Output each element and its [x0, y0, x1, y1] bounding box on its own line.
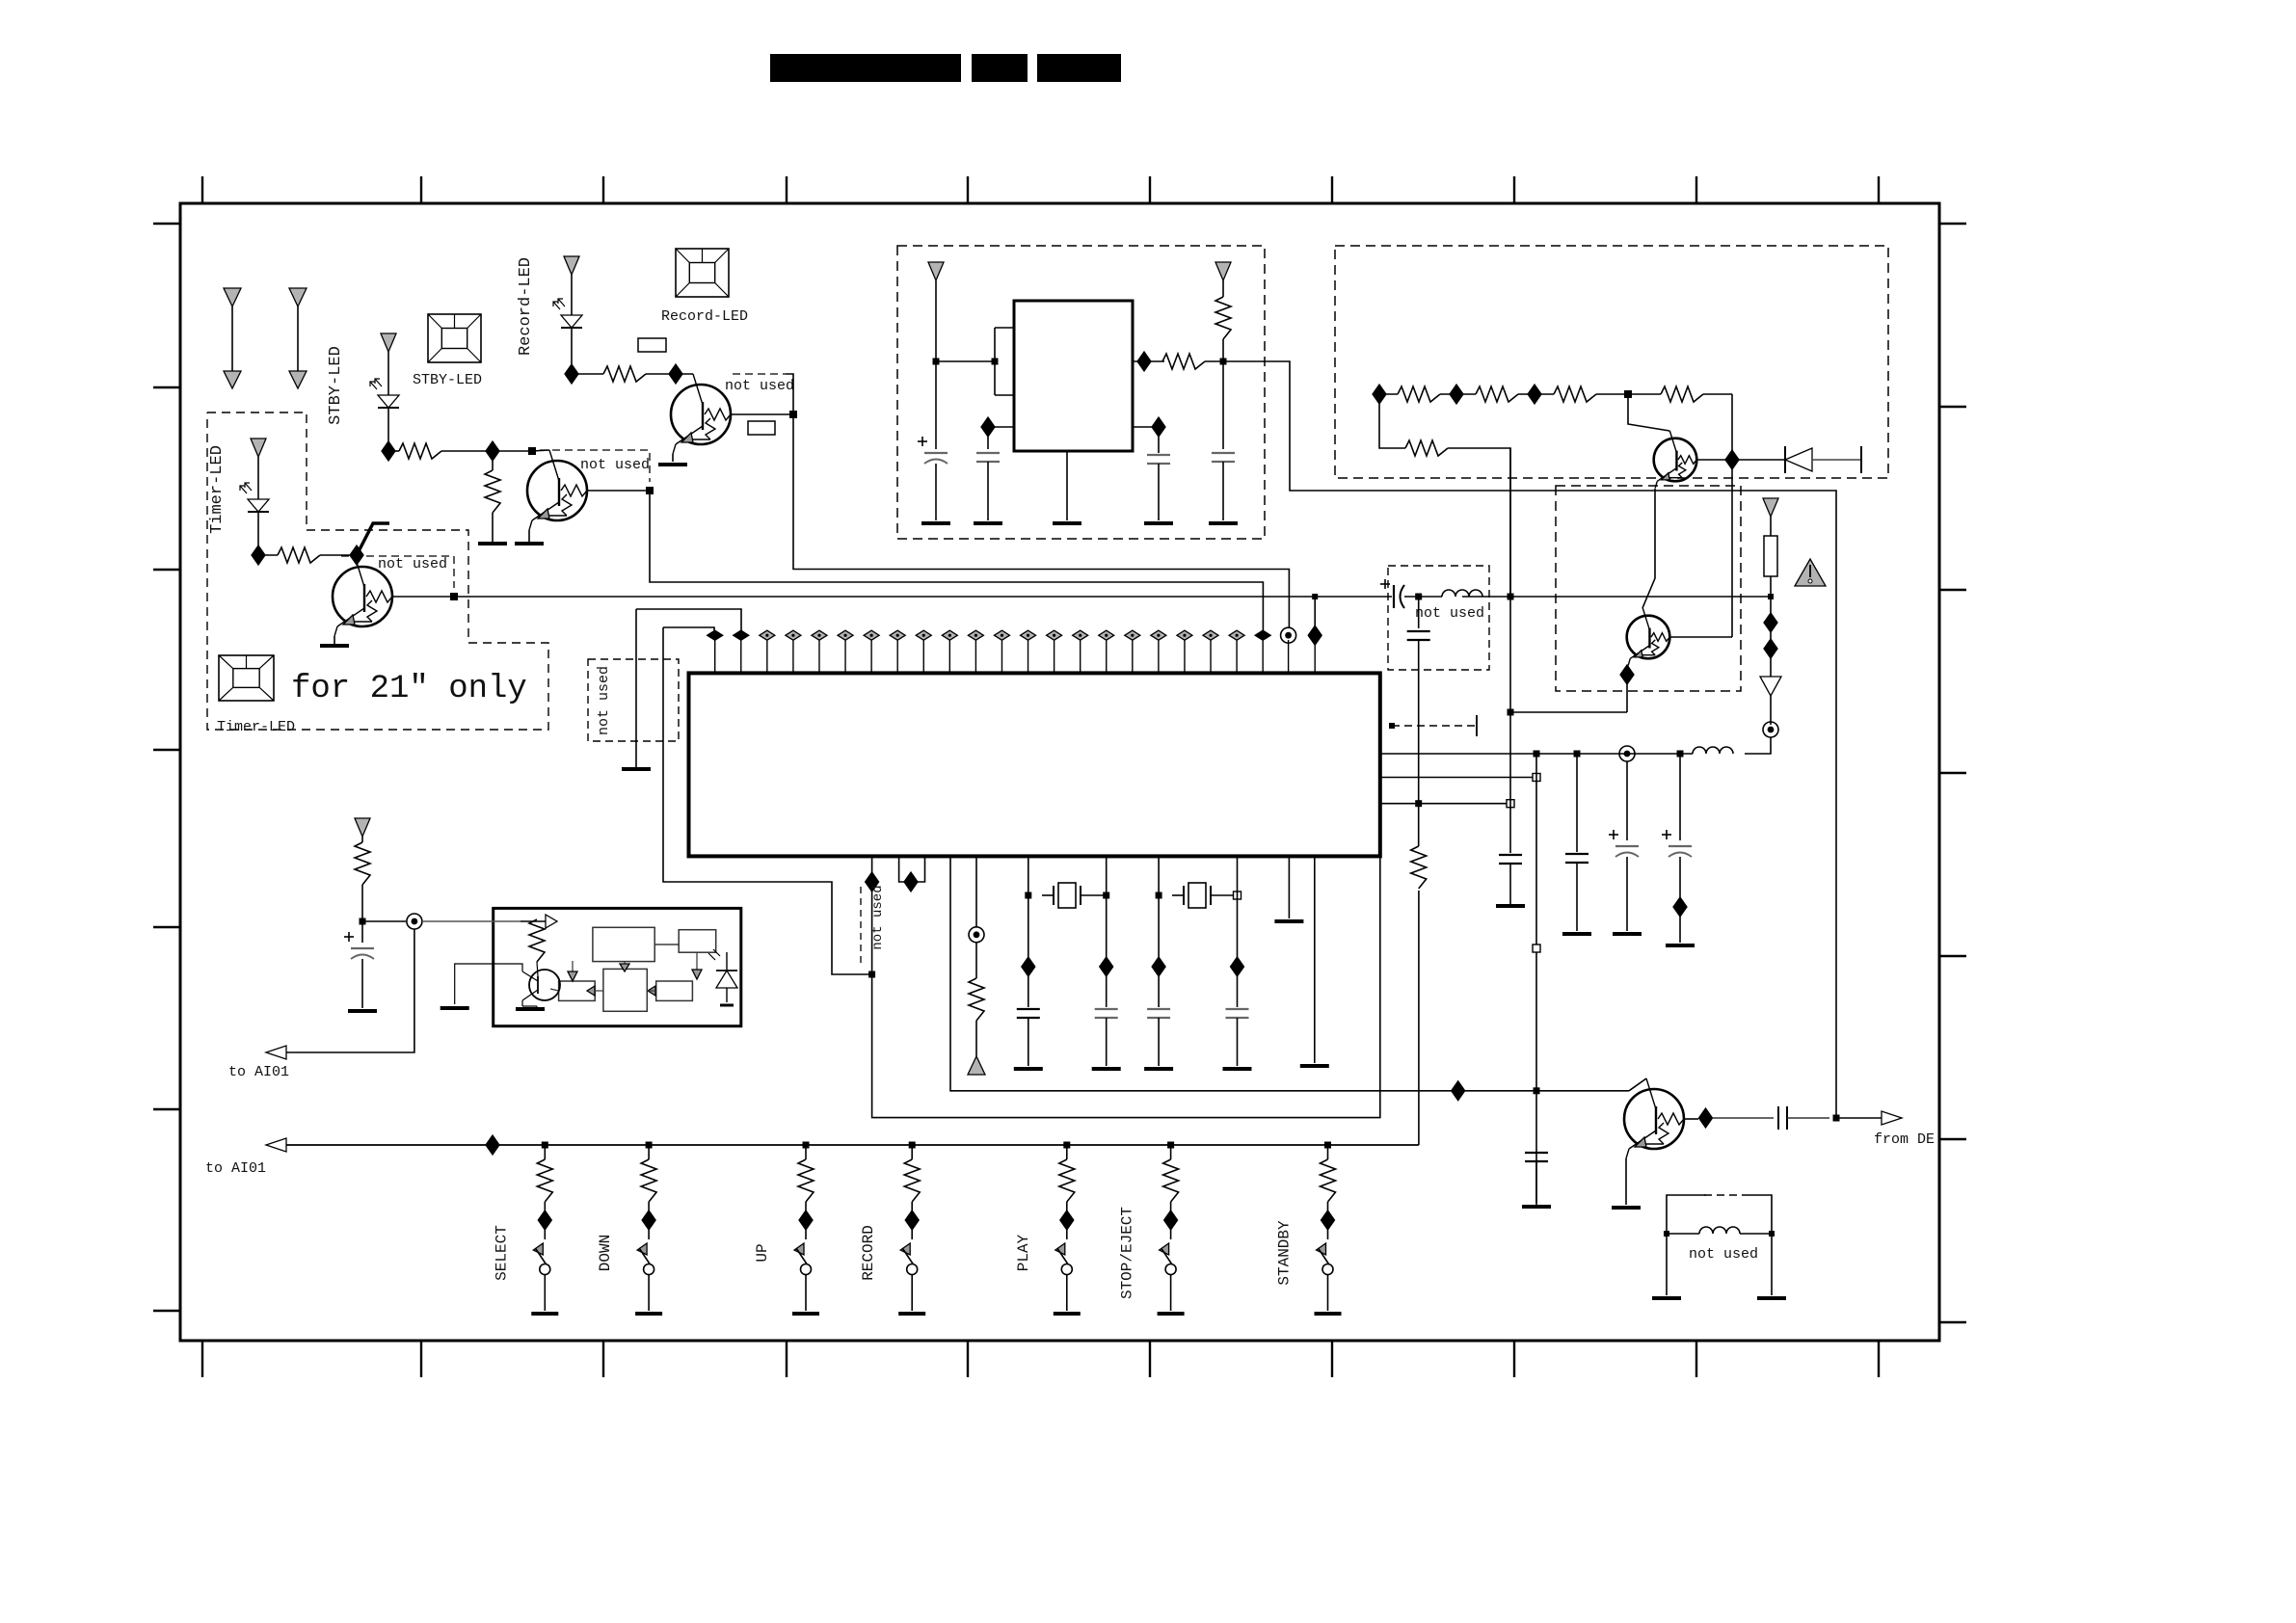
crystal X1: [1058, 883, 1076, 908]
cap osc4: [1158, 427, 1160, 453]
wire ir res: [536, 918, 538, 920]
ground C-1567: [1496, 904, 1525, 908]
node rail1b: [1574, 751, 1581, 758]
wire: [1440, 393, 1456, 395]
button STOP/EJECT: [1158, 1142, 1185, 1315]
node osc: [933, 359, 940, 365]
cap C-1567: [1499, 854, 1522, 856]
IR transistor Q-ir: [529, 970, 560, 1000]
transistor Q-record not used: [671, 385, 731, 444]
net pin1337: [1288, 856, 1290, 918]
wire: [1667, 1233, 1699, 1235]
node de diamond: [1699, 1108, 1713, 1128]
IR wire a: [572, 961, 574, 975]
node: [992, 359, 999, 365]
IC top pins: [707, 630, 1270, 673]
wire: [257, 512, 259, 555]
jumper mark: [357, 523, 389, 555]
supply arrow Timer-LED: [251, 439, 266, 499]
wire emitter rail: [1510, 711, 1627, 713]
wire: [1418, 804, 1420, 846]
net col1636: [1576, 754, 1578, 852]
wire fuse down: [1770, 576, 1772, 597]
svg-text:SELECT: SELECT: [493, 1225, 510, 1281]
svg-text:DOWN: DOWN: [597, 1235, 614, 1271]
node de: [1833, 1115, 1840, 1122]
svg-text:PLAY: PLAY: [1015, 1234, 1032, 1271]
node junction 904: [868, 971, 875, 978]
wire: [1205, 360, 1265, 362]
wire base stby: [587, 490, 650, 492]
wire: [1404, 596, 1442, 598]
wire: [362, 920, 406, 922]
ground ir2: [441, 1006, 469, 1010]
IR arrow left2: [648, 986, 655, 996]
svg-text:not used: not used: [1689, 1246, 1758, 1263]
wire: [1535, 393, 1554, 395]
ground osc1: [921, 521, 950, 525]
IR inner block 2: [679, 930, 716, 953]
net q-tr2 base up: [1731, 610, 1733, 637]
pin U2 right: [1133, 360, 1164, 362]
net record to IC pin23: [793, 414, 1289, 627]
drawing frame border: [180, 203, 1939, 1341]
wire: [320, 554, 357, 556]
open arrow down: [1760, 677, 1781, 696]
node record junction: [669, 364, 682, 384]
node Record: [565, 364, 578, 384]
button RECORD: [898, 1142, 925, 1315]
IR wire c: [696, 952, 698, 973]
ground pin2: [622, 767, 651, 771]
IC U2 reset: [1014, 301, 1133, 451]
wire: [492, 451, 494, 470]
net right vertical: [1835, 490, 1837, 492]
package icon STBY-LED: [428, 314, 481, 362]
dashed box right2: [1556, 486, 1741, 691]
wire pin2 gnd: [635, 609, 637, 767]
resistor R-ir2 vertical: [529, 919, 545, 962]
node junction: [486, 441, 499, 461]
net fuse column: [1770, 597, 1772, 677]
ground C-1202: [1144, 1067, 1173, 1071]
dashed not-used wire record: [733, 373, 786, 375]
small rect pad2: [748, 421, 775, 435]
svg-text:not used: not used: [725, 378, 794, 394]
title redaction bar 1: [770, 54, 961, 82]
pin U2 right y443: [1133, 426, 1159, 428]
cap C-1066: [1017, 1008, 1040, 1010]
ground pin1363: [1300, 1064, 1329, 1068]
svg-text:STBY-LED: STBY-LED: [327, 346, 345, 425]
wire: [975, 942, 977, 978]
node col1567 a: [1508, 709, 1514, 716]
IR wire b: [624, 962, 626, 964]
dashed outline for-21-only region: [207, 412, 548, 730]
resistor R-ir: [355, 842, 370, 885]
wire: [572, 373, 603, 375]
coil L-lc: [1442, 590, 1482, 597]
node xtal d: [1234, 891, 1241, 899]
node base stby: [646, 487, 654, 494]
wire: [521, 920, 546, 922]
IC right pin rail 2: [1380, 777, 1536, 779]
svg-text:not used: not used: [1415, 605, 1484, 622]
resistor R-stby2 vertical: [485, 470, 500, 513]
net pin1013: [975, 856, 977, 927]
node diamond 1512: [1452, 1081, 1465, 1101]
cap osc2: [987, 427, 989, 449]
wire: [361, 885, 363, 921]
node emitter diamond: [1620, 665, 1634, 684]
wire: [1836, 1117, 1882, 1119]
ground Q-stby: [515, 542, 544, 545]
node diamond f1: [1764, 613, 1777, 632]
LED Record-LED: [561, 315, 582, 328]
button PLAY: [1054, 1142, 1081, 1315]
wire base record: [731, 413, 793, 415]
ground Q-record: [658, 463, 687, 466]
wire emitter record: [672, 454, 674, 462]
cap C-1202: [1147, 1008, 1170, 1010]
diode D-tr: [1732, 459, 1785, 461]
wire emitter down: [1626, 684, 1628, 712]
node rail1a: [1534, 751, 1540, 758]
IR photodiode: [716, 971, 737, 988]
node bus diamond: [486, 1135, 499, 1155]
node xtal b: [1103, 892, 1109, 899]
circled node rail: [1619, 746, 1635, 761]
wire: [388, 450, 399, 452]
svg-text:Timer-LED: Timer-LED: [208, 445, 227, 534]
title redaction bar 3: [1037, 54, 1121, 82]
wire: [1448, 448, 1510, 597]
wire: [1596, 393, 1628, 395]
resistor R-osc: [1162, 354, 1205, 369]
resistor R-tr3: [1554, 386, 1596, 402]
wire ir left exit: [455, 964, 522, 1004]
svg-text:not used: not used: [870, 885, 886, 949]
wire collector: [676, 373, 693, 375]
node tr2: [1450, 385, 1463, 404]
net pin1363: [1314, 856, 1316, 1063]
LED Timer-LED: [248, 499, 269, 512]
wire emitter q-tr1: [1642, 489, 1655, 608]
pin U2 left y443: [988, 426, 1014, 428]
node xtal a: [1025, 892, 1031, 899]
dashed not-used box timer: [341, 556, 454, 588]
warning triangle: [1795, 559, 1826, 586]
node base: [1725, 450, 1739, 469]
node Timer: [252, 545, 265, 565]
cap C-1688 elec: [1615, 845, 1639, 847]
wire: [441, 450, 532, 452]
dashed top coil box: [1704, 1194, 1751, 1196]
wire: [1518, 393, 1535, 395]
frame right ticks: [1939, 224, 1966, 1322]
wire base de: [1684, 1118, 1698, 1120]
svg-text:STBY-LED: STBY-LED: [413, 372, 482, 388]
wire collector q-tr1: [1628, 394, 1669, 431]
svg-text:STOP/EJECT: STOP/EJECT: [1119, 1207, 1136, 1299]
IR inner block 4: [603, 969, 647, 1011]
net timer wire cont: [1510, 596, 1771, 598]
wire: [1628, 393, 1661, 395]
supply arrow Record: [564, 256, 579, 315]
frame bottom ticks: [202, 1341, 1879, 1377]
wire: [492, 513, 494, 542]
ground osc3: [1209, 521, 1238, 525]
wire emitter: [528, 530, 530, 542]
wire: [1462, 596, 1510, 598]
resistor R-osc2 vertical: [1215, 297, 1231, 339]
resistor R-1472 vertical: [1411, 846, 1427, 889]
IC pin 24 node: [1314, 635, 1316, 673]
wire: [387, 408, 389, 451]
dashed box oscillator: [897, 246, 1265, 539]
node net619: [1508, 594, 1514, 600]
node collector stby: [528, 447, 536, 455]
wire collector de: [1629, 1078, 1646, 1091]
crystal X2: [1188, 883, 1206, 908]
cap osc left elec: [935, 361, 937, 449]
open arrow to AI01 upper: [266, 1046, 286, 1059]
net pin2 feed: [636, 609, 741, 630]
net key bus: [281, 1144, 1419, 1146]
cap C-lc2: [1418, 597, 1420, 628]
wire emitter to gnd: [334, 636, 335, 644]
title redaction bar 2: [972, 54, 1028, 82]
svg-text:not used: not used: [580, 457, 650, 473]
svg-text:to AI01: to AI01: [205, 1160, 266, 1177]
circled node 1013: [969, 927, 984, 943]
net tr vertical: [1731, 394, 1733, 610]
svg-text:Record-LED: Record-LED: [661, 308, 748, 325]
IR arrow left1: [587, 986, 595, 996]
coil L-rail: [1693, 747, 1733, 754]
wire pin top: [995, 327, 1014, 329]
node diamond c1743: [1673, 897, 1687, 917]
wire corner record: [786, 374, 793, 412]
supply arrow osc left: [928, 262, 944, 361]
node lc: [1415, 594, 1422, 600]
transistor Q-de: [1624, 1089, 1684, 1149]
net pin1147: [1106, 856, 1108, 1007]
ground C-1636: [1562, 932, 1591, 936]
ground osc4: [1144, 521, 1173, 525]
button STANDBY: [1315, 1142, 1342, 1315]
dashed stub 904: [860, 887, 862, 964]
node diamond 1202: [1152, 957, 1165, 976]
node tr4: [1624, 390, 1632, 398]
button SELECT: [531, 1142, 558, 1315]
net pin1202: [1158, 856, 1160, 1007]
svg-text:UP: UP: [754, 1243, 771, 1262]
osq col1594: [1533, 945, 1540, 952]
ground C-ir: [348, 1009, 377, 1013]
resistor R-record: [603, 366, 646, 382]
fuse F1: [1764, 536, 1777, 576]
node osc out: [1220, 359, 1227, 365]
arrow ir in: [546, 915, 557, 928]
node pin904 diamond: [866, 872, 879, 891]
IC bottom U pins: [899, 856, 925, 882]
net pin986: [950, 856, 1629, 1091]
cap C-1594: [1525, 1152, 1548, 1154]
node base record: [789, 411, 797, 418]
ground Q-de: [1612, 1206, 1641, 1210]
net pin24 up: [1314, 597, 1316, 635]
net timer long wire: [454, 596, 1392, 598]
wire: [1456, 393, 1476, 395]
button DOWN: [635, 1142, 662, 1315]
transistor Q-timer not used: [333, 567, 392, 626]
node base timer: [450, 593, 458, 600]
cap C-1147: [1095, 1008, 1118, 1010]
IR module box: [494, 908, 741, 1025]
net pin1283: [1237, 856, 1239, 1007]
supply arrow STBY: [381, 333, 396, 395]
resistor R-tr1: [1398, 386, 1440, 402]
circled node ir: [407, 914, 422, 929]
supply arrow fuse: [1763, 498, 1778, 536]
wire coil legs: [1666, 1234, 1668, 1295]
IR inner block 5: [656, 981, 693, 1000]
wire: [1222, 339, 1224, 361]
supply arrow osc right: [1215, 262, 1231, 297]
net stub arrow 1: [224, 288, 241, 388]
ground C-1066: [1014, 1067, 1043, 1071]
ground ir3: [521, 1000, 523, 1006]
coil L-notused: [1699, 1227, 1740, 1234]
wire: [975, 1021, 977, 1056]
transistor Q-stby not used: [527, 461, 587, 520]
ground osc2: [974, 521, 1002, 525]
circled node f: [1763, 722, 1778, 737]
package icon Record-LED: [676, 249, 729, 297]
ground C-1743: [1666, 944, 1695, 947]
ground U2: [1053, 521, 1081, 525]
dashed box not used LC: [1388, 566, 1489, 670]
wire: [1713, 1117, 1774, 1119]
LED STBY-LED: [378, 395, 399, 408]
resistor R-timer: [278, 547, 320, 563]
ground C-1147: [1092, 1067, 1121, 1071]
net pin1066: [1028, 856, 1029, 1007]
wire emitter de: [1625, 1158, 1627, 1205]
frame left ticks: [153, 224, 180, 1311]
IR inner block 1: [593, 927, 654, 961]
wire r2 row: [1379, 394, 1405, 448]
node dot 1594: [1534, 1087, 1540, 1094]
ground C-1594: [1522, 1205, 1551, 1209]
box not used coil: [1667, 1195, 1706, 1234]
net stby to pin22: [650, 491, 1263, 630]
wire base q-tr2: [1669, 636, 1732, 638]
wire: [646, 373, 676, 375]
wire: [1703, 393, 1732, 395]
IC U1 microcontroller: [689, 673, 1380, 856]
wire U2 bottom: [1066, 451, 1068, 520]
cap C-lc elec horiz: [1393, 585, 1395, 608]
node xtal c: [1156, 892, 1162, 899]
wire: [258, 554, 278, 556]
dashed stub IC topright: [1392, 725, 1477, 727]
node rail1c: [1677, 751, 1684, 758]
resistor R-tr4: [1661, 386, 1703, 402]
IC bottom pin nets 904: [872, 856, 1380, 1118]
resistor R-tr2: [1476, 386, 1518, 402]
resistor R-stby: [399, 443, 441, 459]
dashed box not used (pin2): [588, 659, 679, 741]
net bus to resistor col: [1418, 891, 1420, 1145]
wire: [1379, 393, 1398, 395]
node diamond 1066: [1022, 957, 1035, 976]
cap C-1743 elec: [1669, 845, 1692, 847]
svg-text:from DE: from DE: [1874, 1131, 1935, 1148]
resistor R-1013: [969, 978, 984, 1021]
net col1688: [1626, 761, 1628, 840]
wire pin bot: [995, 394, 1014, 396]
svg-text:not used: not used: [378, 556, 447, 572]
net to AI01 upper: [281, 929, 414, 1052]
net stub arrow 2: [289, 288, 307, 388]
wire collector: [356, 555, 358, 559]
IC right pin rail 1: [1380, 753, 1627, 755]
node tr1: [1373, 385, 1386, 404]
ground C-1283: [1223, 1067, 1252, 1071]
wire: [1627, 753, 1693, 755]
supply arrow up 1013: [968, 1056, 985, 1075]
wire: [936, 360, 995, 362]
svg-text:Timer-LED: Timer-LED: [217, 719, 295, 735]
open arrow to AI01 lower: [266, 1138, 286, 1152]
ground C-1688: [1613, 932, 1642, 936]
net col1594: [1535, 754, 1537, 1205]
IC top pin 23 circled: [1288, 640, 1290, 673]
frame top ticks: [202, 176, 1879, 203]
node diamond 1147: [1100, 957, 1113, 976]
package icon Timer-LED: [219, 655, 274, 701]
open arrow from DE: [1882, 1111, 1902, 1125]
svg-text:Record-LED: Record-LED: [517, 257, 535, 356]
wire fuse col to rail: [1745, 737, 1771, 754]
node ir: [360, 918, 366, 925]
IR wire b3: [550, 989, 559, 991]
IR wire b2: [654, 944, 679, 945]
node: [350, 545, 363, 565]
node diamond 1283: [1231, 957, 1244, 976]
wire collector: [532, 450, 549, 451]
dashed not-used box stby: [540, 450, 650, 482]
node tr3: [1528, 385, 1541, 404]
wire base q-tr1: [1696, 459, 1732, 461]
cap C-1283: [1226, 1008, 1249, 1010]
net col1743: [1679, 754, 1681, 840]
IR inner block 3: [559, 981, 596, 1000]
supply arrow IR: [355, 818, 370, 842]
net vcc ir: [663, 627, 870, 974]
dashed box top right: [1335, 246, 1888, 478]
wire: [571, 328, 573, 374]
svg-text:for 21" only: for 21" only: [291, 671, 527, 707]
svg-text:RECORD: RECORD: [860, 1225, 877, 1281]
IR wire d: [654, 944, 679, 945]
net pin1 feed: [663, 627, 714, 630]
wire base: [392, 596, 454, 598]
wire feedback: [994, 328, 996, 395]
net osc out to right rail: [1265, 361, 1836, 1117]
